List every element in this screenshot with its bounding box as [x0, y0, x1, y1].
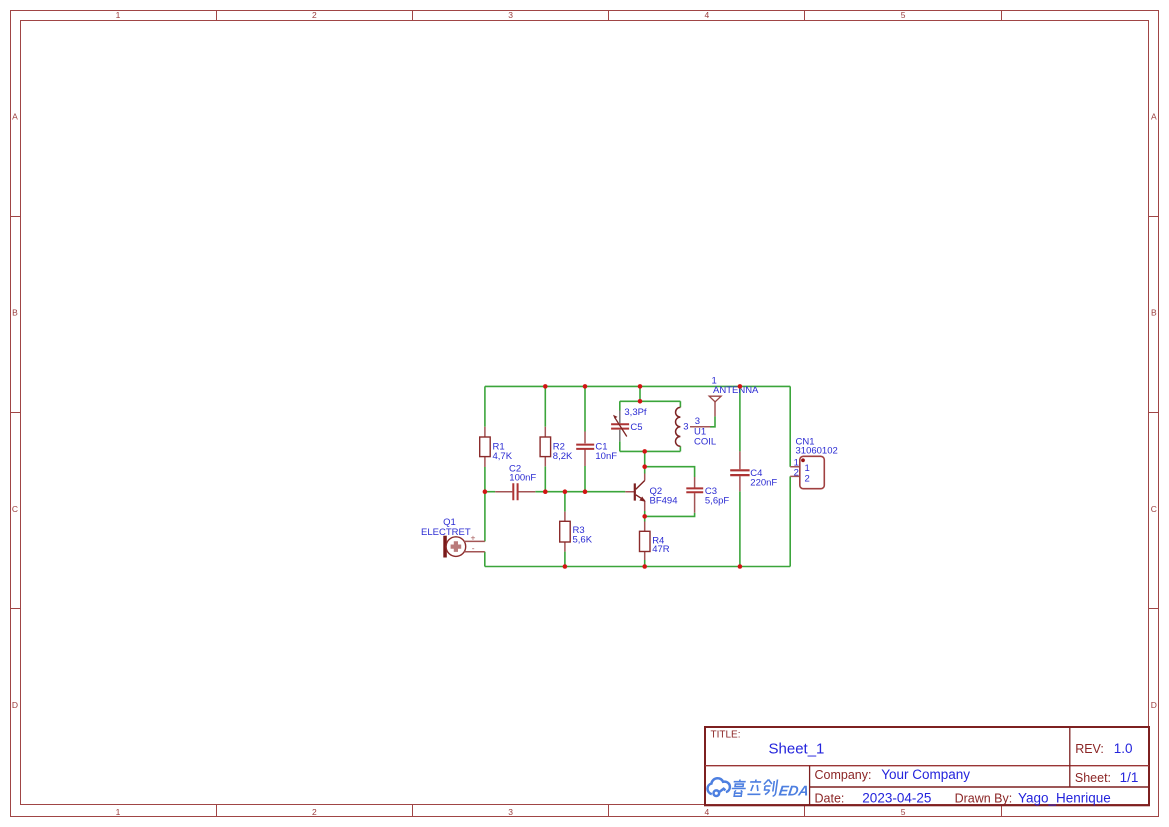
- svg-text:5: 5: [901, 10, 906, 20]
- resistor R3: [560, 512, 571, 552]
- svg-text:8,2K: 8,2K: [553, 451, 573, 462]
- wire R2 top: [544, 386, 546, 426]
- svg-text:2: 2: [312, 807, 317, 817]
- svg-text:D: D: [1151, 700, 1157, 710]
- wire mic branch: [484, 492, 486, 542]
- wire tank top stub: [639, 386, 641, 401]
- svg-text:31060102: 31060102: [796, 446, 838, 457]
- wire C4 bottom: [739, 491, 741, 566]
- wire bottom rail: [485, 566, 790, 568]
- connector CN1: [790, 456, 824, 488]
- svg-text:10nF: 10nF: [595, 451, 617, 462]
- svg-text:+: +: [471, 533, 476, 543]
- wire C1 top: [584, 386, 586, 431]
- svg-text:A: A: [12, 111, 18, 121]
- wire C3 bottom to emitter rail: [645, 513, 695, 517]
- svg-text:2023-04-25: 2023-04-25: [862, 791, 931, 806]
- junction tank box top: [638, 399, 643, 404]
- wire tank box top: [620, 400, 681, 402]
- logo cloud icon: [708, 778, 730, 796]
- svg-text:ANTENNA: ANTENNA: [713, 385, 759, 396]
- svg-text:EDA: EDA: [778, 784, 810, 800]
- wire emitter to R4: [644, 511, 646, 522]
- frame row labels left: [12, 111, 18, 710]
- frame column ticks bottom: [217, 805, 1002, 817]
- svg-text:Drawn By:: Drawn By:: [955, 792, 1013, 806]
- svg-text:5,6K: 5,6K: [573, 535, 593, 546]
- svg-text:TITLE:: TITLE:: [711, 730, 741, 741]
- wire antenna elbow: [710, 416, 715, 426]
- junction top rail at C4: [738, 384, 743, 389]
- wire CN1 pin2 down: [789, 476, 791, 566]
- transistor Q2: [625, 474, 645, 512]
- svg-text:4: 4: [705, 10, 710, 20]
- svg-text:-: -: [472, 543, 475, 553]
- svg-text:COIL: COIL: [694, 436, 716, 447]
- frame row ticks left: [11, 217, 21, 609]
- frame column labels bottom: [116, 807, 906, 817]
- capacitor C1: [576, 432, 594, 467]
- junction top rail at C1: [583, 384, 588, 389]
- svg-text:4: 4: [705, 807, 710, 817]
- wire left vertical to R1: [484, 386, 486, 426]
- logo text jialichuang EDA: [731, 780, 778, 797]
- capacitor C3: [686, 477, 703, 513]
- wire top rail: [485, 385, 790, 387]
- wire mic minus down: [484, 552, 486, 567]
- svg-text:C5: C5: [630, 422, 642, 433]
- resistor R4: [640, 522, 651, 561]
- junction emitter node: [642, 514, 647, 519]
- resistor R1: [480, 427, 491, 467]
- wire tank box bottom: [620, 450, 681, 452]
- frame row ticks right: [1149, 217, 1159, 609]
- svg-text:BF494: BF494: [650, 496, 678, 507]
- junction collector node: [642, 464, 647, 469]
- capacitor C4: [730, 451, 749, 491]
- svg-text:Sheet_1: Sheet_1: [769, 740, 825, 757]
- frame row labels right: [1151, 111, 1157, 710]
- junction top rail at R2: [543, 384, 548, 389]
- svg-text:ELECTRET: ELECTRET: [421, 527, 471, 538]
- svg-text:4,7K: 4,7K: [493, 451, 513, 462]
- antenna: [709, 396, 721, 416]
- wire C1 bottom: [584, 466, 586, 492]
- title block rev column divider: [1069, 727, 1071, 787]
- svg-text:3,3Pf: 3,3Pf: [624, 407, 647, 418]
- svg-text:5,6pF: 5,6pF: [705, 496, 729, 507]
- junction bottom rail at C4: [738, 564, 743, 569]
- junction bottom rail at R3: [563, 564, 568, 569]
- svg-text:3: 3: [683, 421, 688, 432]
- svg-text:3: 3: [508, 10, 513, 20]
- svg-text:3: 3: [508, 807, 513, 817]
- capacitor C2: [495, 483, 535, 500]
- junction mid rail at R1: [483, 489, 488, 494]
- junction mid rail at R3: [563, 489, 568, 494]
- svg-text:220nF: 220nF: [750, 477, 777, 488]
- svg-text:B: B: [12, 308, 18, 318]
- svg-text:Date:: Date:: [815, 792, 845, 806]
- wire C4 top: [739, 386, 741, 451]
- frame column ticks top: [217, 11, 1002, 21]
- title block logo cell divider: [809, 766, 811, 806]
- svg-text:100nF: 100nF: [509, 472, 536, 483]
- wire collector node to C3 top: [645, 467, 695, 477]
- svg-text:2: 2: [794, 468, 799, 479]
- resistor R2: [540, 427, 551, 467]
- junction top rail at tank stub: [638, 384, 643, 389]
- svg-text:Sheet:: Sheet:: [1075, 771, 1111, 785]
- svg-text:1/1: 1/1: [1120, 770, 1139, 785]
- svg-text:REV:: REV:: [1075, 742, 1104, 756]
- wire mid rail left: [485, 491, 495, 493]
- svg-text:D: D: [12, 700, 18, 710]
- title block outer border: [705, 727, 1149, 805]
- svg-text:1: 1: [116, 10, 121, 20]
- svg-text:Your Company: Your Company: [881, 767, 970, 782]
- svg-text:2: 2: [805, 473, 810, 484]
- wire R4 bottom: [644, 560, 646, 567]
- svg-text:B: B: [1151, 308, 1157, 318]
- junction tank box bottom: [642, 449, 647, 454]
- wire R2 bottom: [544, 466, 546, 491]
- title block title row divider: [705, 765, 1149, 767]
- svg-text:1.0: 1.0: [1114, 741, 1133, 756]
- svg-text:C: C: [1151, 504, 1157, 514]
- svg-text:A: A: [1151, 111, 1157, 121]
- svg-text:Yago_Henrique: Yago_Henrique: [1018, 791, 1111, 806]
- wire tank bottom to collector node: [644, 451, 646, 473]
- title block company row divider: [810, 786, 1149, 788]
- frame column labels top: [116, 10, 906, 20]
- variable capacitor C5: [611, 411, 629, 442]
- junction bottom rail at R4: [642, 564, 647, 569]
- wire R3 top: [564, 492, 566, 512]
- wire tank box right segments: [679, 401, 681, 451]
- svg-text:2: 2: [312, 10, 317, 20]
- svg-text:Company:: Company:: [815, 768, 872, 782]
- wire right vertical to CN1 pin1: [789, 386, 791, 466]
- wire mid rail right of C2 to Q2 base: [535, 491, 625, 493]
- svg-text:47R: 47R: [652, 544, 670, 555]
- inductor U1 COIL: [676, 407, 711, 446]
- svg-text:1: 1: [116, 807, 121, 817]
- junction mid rail at R2: [543, 489, 548, 494]
- junction mid rail at C1: [583, 489, 588, 494]
- svg-text:1: 1: [805, 463, 810, 474]
- wire R1 bottom to mid rail: [484, 467, 486, 492]
- svg-text:5: 5: [901, 807, 906, 817]
- microphone Q1 ELECTRET: [443, 536, 485, 558]
- wire tank box left segments: [619, 401, 621, 451]
- svg-text:C: C: [12, 504, 18, 514]
- wire R3 bottom: [564, 552, 566, 567]
